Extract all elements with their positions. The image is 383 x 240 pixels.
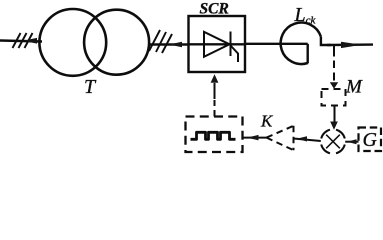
choke inner bend — [307, 44, 309, 64]
wire: G box to comparator — [345, 141, 358, 143]
arrowhead on supply line (pointing left) — [23, 38, 37, 44]
comparator circle with X — [321, 130, 345, 154]
arrowhead from G into comparator (pointing left) — [347, 139, 357, 144]
wire: SCR to choke — [245, 43, 308, 45]
smoothing choke Lck: circle arc with notch — [281, 23, 321, 64]
dashed wire: pulse generator up to SCR gate — [214, 83, 216, 117]
square wave symbol — [191, 132, 236, 139]
arrowhead into amplifier (pointing left) — [297, 136, 308, 141]
wire: choke to output with arrow — [327, 43, 373, 46]
SCR box — [189, 16, 246, 72]
dashed wire down to M box — [333, 46, 335, 81]
svg-text:T: T — [84, 76, 97, 98]
arrowhead into SCR bottom (pointing up) — [211, 74, 219, 83]
arrowhead into M box (pointing down) — [330, 82, 338, 89]
G box (dashed) — [359, 128, 382, 152]
svg-text:K: K — [260, 112, 274, 131]
thyristor inside SCR box — [204, 32, 238, 63]
svg-text:G: G — [363, 129, 378, 151]
wire: transformer to SCR box — [149, 43, 189, 45]
arrowhead between T and SCR (pointing left) — [169, 42, 182, 48]
transformer T secondary circle — [84, 10, 149, 75]
svg-text:M: M — [345, 77, 363, 98]
svg-text:SCR: SCR — [200, 1, 229, 18]
wire: amplifier K to pulse generator — [243, 137, 267, 139]
arrowhead into pulse generator (pointing left) — [247, 135, 259, 141]
hatch marks: 3-phase slashes on supply line — [13, 33, 33, 48]
wire: three-phase supply line at far left — [0, 41, 42, 42]
wire: M box down to comparator — [334, 106, 336, 124]
arrowhead output (pointing right) — [341, 42, 362, 48]
pulse generator box (dashed) — [186, 117, 243, 153]
choke output step — [321, 37, 331, 45]
transformer T primary circle — [39, 9, 106, 76]
M box (dashed) — [322, 89, 346, 106]
wire through SCR box — [189, 43, 246, 45]
svg-text:Lck: Lck — [294, 4, 317, 27]
hatch marks: 3-phase slashes between T and SCR — [149, 30, 172, 53]
wire: comparator to amplifier K — [294, 139, 321, 142]
amplifier K triangle (dashed) — [267, 126, 294, 150]
arrowhead into comparator (pointing down) — [330, 122, 338, 130]
